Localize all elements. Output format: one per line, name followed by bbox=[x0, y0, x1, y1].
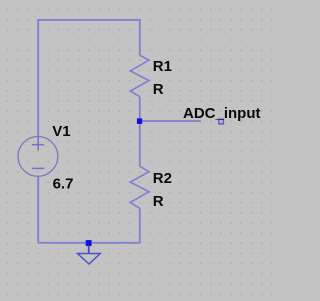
ground bbox=[78, 246, 101, 265]
svg-text:R: R bbox=[153, 193, 164, 210]
node ADC_input label anchor bbox=[219, 119, 224, 124]
svg-text:R: R bbox=[153, 81, 164, 98]
resistor R2 bbox=[130, 166, 149, 208]
wire mid right: R1 bottom through node to R2 top bbox=[139, 97, 141, 167]
wire left: top corner down to V1 bbox=[37, 19, 39, 137]
svg-text:R2: R2 bbox=[153, 170, 172, 187]
wire top: V1 top to R1 top bbox=[38, 19, 140, 21]
wire ADC_input: node to label bbox=[140, 120, 201, 122]
voltage source V1 bbox=[18, 137, 58, 177]
svg-text:V1: V1 bbox=[52, 123, 70, 140]
svg-text:R1: R1 bbox=[153, 58, 172, 75]
node ground junction bbox=[86, 240, 92, 246]
node ADC junction bbox=[137, 118, 142, 124]
svg-text:ADC_input: ADC_input bbox=[183, 105, 261, 122]
wire right lower: R2 bottom to bottom rail bbox=[139, 208, 141, 242]
resistor R1 bbox=[130, 55, 149, 96]
svg-text:6.7: 6.7 bbox=[53, 175, 74, 192]
wire bottom rail bbox=[38, 242, 140, 244]
wire left lower: V1 bottom to bottom rail bbox=[37, 176, 39, 243]
wire right upper: top rail to R1 bbox=[139, 19, 141, 55]
